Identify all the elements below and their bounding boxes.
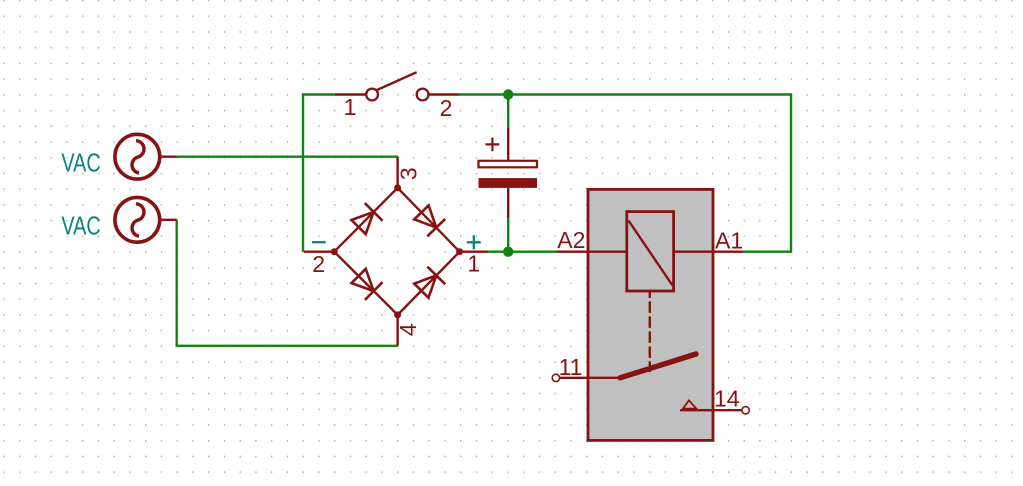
svg-text:3: 3 [396, 167, 422, 180]
svg-text:1: 1 [467, 251, 480, 277]
svg-text:1: 1 [344, 94, 357, 120]
svg-text:VAC: VAC [61, 150, 100, 178]
svg-text:11: 11 [559, 354, 583, 380]
svg-text:VAC: VAC [61, 213, 100, 241]
svg-text:A2: A2 [557, 227, 585, 253]
svg-text:2: 2 [440, 95, 453, 121]
svg-text:14: 14 [714, 385, 740, 411]
svg-text:2: 2 [312, 251, 325, 277]
svg-text:A1: A1 [715, 228, 743, 254]
svg-text:4: 4 [395, 323, 421, 336]
